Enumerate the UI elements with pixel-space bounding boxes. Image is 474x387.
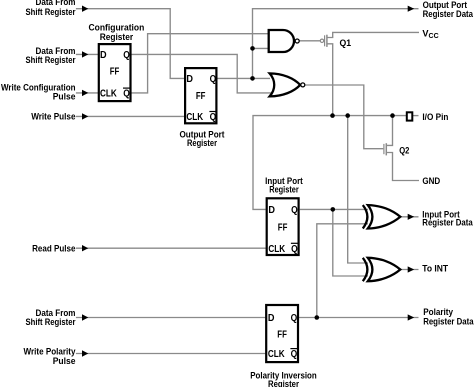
junction: Q1 source at I/O node — [330, 113, 335, 118]
svg-text:CLK: CLK — [186, 112, 203, 123]
wire: Polarity Register Q branch up to XOR U3a lower input — [317, 224, 368, 318]
wire: I/O pin to label stub — [413, 115, 419, 117]
svg-text:Register Data: Register Data — [423, 317, 474, 327]
svg-text:D: D — [268, 205, 275, 216]
svg-text:Read Pulse: Read Pulse — [32, 243, 75, 253]
wire: Output Port Register Q net up to Output Port Register Data — [253, 9, 419, 79]
svg-text:Register: Register — [187, 138, 217, 148]
svg-text:Register: Register — [269, 185, 299, 195]
wire: Data From Shift Register to D of Polarity Inversion Register — [76, 317, 266, 319]
wire: Data From Shift Register to D of Configuration Register — [76, 53, 98, 55]
wire: Read Pulse to CLK of Input Port Register — [76, 247, 266, 249]
svg-text:Q: Q — [210, 112, 217, 123]
svg-text:FF: FF — [196, 91, 206, 102]
arrowhead: Write Pulse — [82, 113, 88, 119]
wire: Input Port Register Q branch to XOR U3b lower input — [333, 209, 368, 276]
svg-text:Polarity: Polarity — [423, 307, 454, 317]
wire: Input Port Register Q to XOR U3a upper input — [300, 208, 368, 210]
svg-text:GND: GND — [422, 176, 440, 186]
wire: I/O pin node line and branch to D of Input Port Register — [253, 116, 406, 210]
flip-flop U5 Output Port Register box — [185, 68, 216, 123]
wire: XOR U3a output to Input Port Register Data arrow — [400, 216, 418, 218]
wire: Configuration Register Qbar to NAND U1 upper input — [132, 34, 270, 93]
NAND gate U1 — [269, 30, 300, 52]
flip-flop U6 Input Port Register box — [267, 198, 299, 255]
arrowhead: To INT — [408, 266, 415, 272]
wire: Write Polarity Pulse to CLK of Polarity Inversion Register — [76, 353, 266, 355]
svg-text:Shift Register: Shift Register — [26, 55, 76, 65]
svg-text:Register: Register — [268, 379, 299, 387]
svg-text:Register: Register — [100, 32, 134, 42]
wire: Write Configuration Pulse to CLK of Configuration Register — [76, 92, 98, 94]
arrowhead: Write Configuration Pulse — [82, 90, 88, 96]
arrowhead: Polarity Register Data — [408, 314, 415, 320]
wire: NAND U1 output to Q1 gate — [300, 40, 321, 42]
wire: Configuration Register Q to NOR U2 lower input — [132, 54, 274, 93]
svg-text:Q: Q — [291, 205, 298, 216]
junction: Output Port Register Q line — [250, 76, 255, 81]
svg-text:VCC: VCC — [422, 28, 438, 40]
svg-text:Q2: Q2 — [399, 145, 409, 155]
svg-text:Register Data: Register Data — [422, 218, 473, 228]
wire: I/O pin node down to XOR U3b upper input — [348, 116, 368, 263]
svg-text:Pulse: Pulse — [53, 92, 76, 102]
arrowhead: Data From Shift Register (top) — [82, 6, 88, 12]
arrowhead: Data From Shift Register (polarity) — [82, 314, 88, 320]
svg-text:FF: FF — [277, 329, 287, 340]
wire: Q1 drain to VCC rail — [327, 32, 419, 37]
svg-text:Q: Q — [291, 313, 298, 324]
arrowhead: Read Pulse — [82, 245, 88, 251]
XOR gate U3a — [363, 205, 401, 228]
wire: NOR U2 output to Q2 gate — [305, 85, 383, 149]
junction: Polarity Register Q branch — [315, 315, 320, 320]
svg-text:Pulse: Pulse — [53, 356, 76, 366]
svg-text:Shift Register: Shift Register — [26, 317, 76, 327]
wire: XOR U3b output to To INT arrow — [400, 269, 418, 271]
flip-flop U4 Configuration Register box — [99, 44, 131, 101]
svg-text:Data From: Data From — [36, 0, 76, 7]
svg-text:Q: Q — [291, 244, 298, 255]
svg-text:CLK: CLK — [100, 89, 117, 100]
svg-text:To INT: To INT — [422, 263, 448, 273]
svg-text:Q: Q — [123, 89, 130, 100]
svg-text:CLK: CLK — [268, 349, 285, 360]
svg-text:D: D — [268, 313, 275, 324]
svg-text:Shift Register: Shift Register — [26, 7, 76, 17]
wire: Data From Shift Register (top) to D of Output Port Register — [76, 9, 185, 79]
svg-text:Q1: Q1 — [340, 38, 352, 48]
arrowhead: Write Polarity Pulse — [82, 350, 88, 356]
svg-text:D: D — [186, 74, 193, 85]
wire: stub from Q net to NAND U1 lower input — [253, 47, 270, 49]
I/O pin connector — [407, 112, 413, 120]
arrowhead: Input Port Register Data — [408, 214, 415, 220]
svg-text:FF: FF — [278, 222, 288, 233]
wire: Polarity Inversion Register Q to Polarity Register Data — [299, 317, 419, 319]
wire: Output Port Register Q to NOR U2 upper input — [217, 77, 270, 79]
wire: Q1 source down to I/O pin node — [327, 44, 333, 116]
svg-text:CLK: CLK — [268, 244, 285, 255]
junction: XOR branch at I/O node — [345, 113, 350, 118]
svg-text:Q: Q — [123, 50, 130, 61]
svg-text:Register Data: Register Data — [423, 9, 474, 19]
svg-text:D: D — [100, 50, 107, 61]
wire: Write Pulse to CLK of Output Port Register — [76, 115, 185, 117]
svg-text:Q: Q — [210, 74, 217, 85]
transistor Q2 (NMOS) — [384, 143, 386, 155]
wire: Q2 source down to GND — [387, 153, 420, 181]
wire: Q2 drain up to I/O pin node — [387, 116, 393, 146]
svg-text:Configuration: Configuration — [89, 22, 145, 32]
arrowhead: Data From Shift Register (config) — [82, 51, 88, 57]
junction: Q2 drain at I/O node — [390, 113, 395, 118]
junction: Q net and NAND input stub — [250, 46, 255, 51]
svg-text:I/O Pin: I/O Pin — [422, 112, 448, 122]
svg-text:FF: FF — [110, 66, 120, 77]
arrowhead: Output Port Register Data — [408, 6, 415, 12]
junction: Input Port Register Q branch — [331, 207, 336, 212]
NOR gate U2 — [270, 73, 305, 96]
transistor Q1 (PMOS) — [320, 35, 327, 47]
flip-flop U7 Polarity Inversion Register box — [266, 305, 298, 362]
XOR gate U3b — [363, 258, 401, 281]
svg-text:Write Pulse: Write Pulse — [31, 111, 75, 121]
svg-text:Q: Q — [291, 349, 298, 360]
